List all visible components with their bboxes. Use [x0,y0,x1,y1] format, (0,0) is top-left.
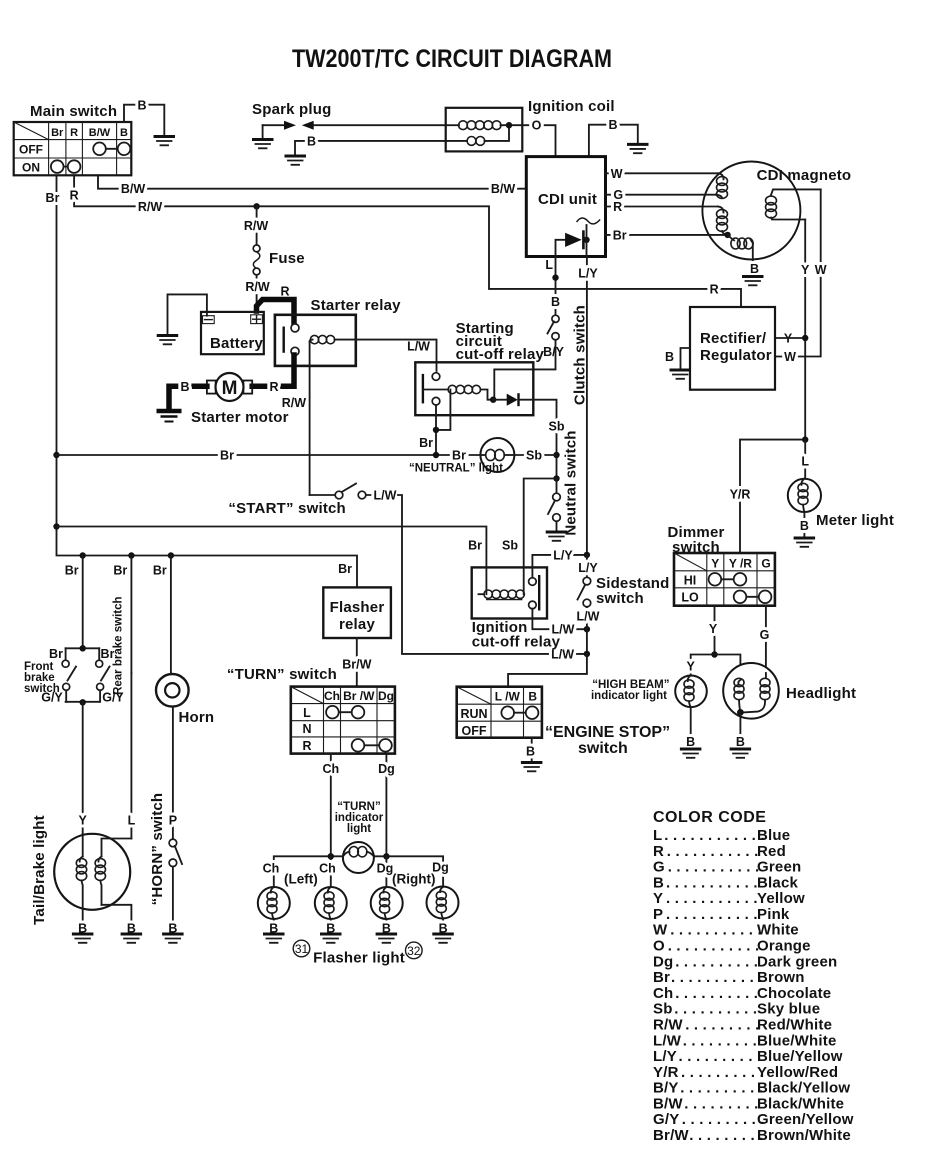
svg-text:Main switch: Main switch [30,103,117,120]
flasher light label [313,950,405,967]
svg-text:. . . . . . . . . . .: . . . . . . . . . . . [668,938,760,955]
svg-text:P: P [169,814,177,828]
svg-text:G: G [653,859,665,876]
svg-text:Br: Br [653,969,670,986]
wire L from CDI [545,257,560,315]
svg-text:B/W: B/W [491,182,516,196]
svg-text:. . . . . . . . . .: . . . . . . . . . . [681,1064,764,1081]
svg-text:B: B [750,262,759,276]
ground tail light 1 [72,934,94,943]
color code O [653,938,811,955]
svg-text:L/Y: L/Y [553,548,573,562]
wire R/W bus [70,175,741,307]
CDI unit [526,157,605,257]
svg-text:Y: Y [79,814,88,828]
svg-text:Starter motor: Starter motor [191,409,289,426]
color code B/W [653,1095,844,1112]
engine stop switch table [457,687,542,738]
node L/W sidestand bottom [584,651,590,657]
spark plug label [252,101,332,118]
ignition coil [446,108,523,152]
flasher light 2 [315,887,347,936]
svg-text:Br /W: Br /W [343,689,375,703]
neutral light [480,438,556,472]
color code R [653,843,786,860]
wire spark plug HT lead [314,124,446,126]
wire R/W starter relay coil to start switch [282,342,310,496]
rectifier/regulator [690,307,775,390]
meter light label [816,512,894,529]
wire L/W cutoff relay lower contact [532,609,590,637]
svg-text:32: 32 [407,944,421,958]
svg-text:Horn: Horn [179,709,215,726]
svg-text:Br: Br [65,564,79,578]
magneto charge coil to B ground [728,235,759,276]
wire B starter motor to ground (thick) [169,380,207,409]
svg-text:G: G [760,628,770,642]
svg-text:Dg: Dg [377,862,394,876]
node Br tail drop [80,552,86,558]
node Br bus1 [53,452,59,458]
svg-text:R: R [710,282,719,296]
svg-text:Dg: Dg [378,689,394,703]
headlight [723,663,779,719]
svg-text:Fuse: Fuse [269,250,305,267]
svg-text:B: B [653,874,664,891]
svg-text:L: L [545,258,553,272]
svg-text:Y: Y [801,263,810,277]
svg-text:Starter relay: Starter relay [311,297,402,314]
ground rectifier [670,370,692,379]
svg-text:Br: Br [338,562,352,576]
wire Br main vertical [46,175,357,587]
svg-text:Y: Y [711,556,719,570]
wire L/Y cutoff relay upper contact [532,548,590,577]
svg-text:. . . . . . . . . .: . . . . . . . . . . [674,1001,757,1018]
starter relay label [311,297,402,314]
color code Y/R [653,1064,838,1081]
ground starter motor (thick) [157,411,182,422]
color code Dg [653,953,837,970]
svg-text:Br: Br [49,647,63,661]
svg-text:Meter light: Meter light [816,512,894,529]
svg-text:R: R [70,127,78,139]
starting circuit cut-off relay [415,362,533,430]
svg-text:Clutch switch: Clutch switch [572,305,589,405]
svg-text:B: B [526,745,535,759]
svg-text:L/W: L/W [552,623,575,637]
svg-text:. . . . . . . . .: . . . . . . . . . [685,1017,759,1034]
svg-text:Black: Black [757,874,798,891]
node Sb neutral light [553,452,559,458]
ignition cut-off relay [472,567,547,618]
node Y rectifier [775,335,808,341]
svg-text:R: R [269,380,278,394]
wire Br to tail light [113,556,131,674]
svg-text:B: B [137,99,146,113]
ground flasher 1 [263,934,285,943]
svg-text:R: R [302,739,311,753]
starter motor [191,373,289,426]
svg-text:Brown: Brown [757,969,805,986]
svg-text:Ch: Ch [653,985,673,1002]
color code G/Y [653,1111,854,1128]
turn switch label [227,666,337,683]
svg-text:Ch: Ch [319,862,336,876]
svg-text:relay: relay [339,616,375,633]
svg-text:R: R [653,843,664,860]
svg-text:B: B [686,735,695,749]
horn label [179,709,215,726]
svg-text:light: light [347,823,371,835]
svg-text:31: 31 [295,942,309,956]
svg-text:B: B [551,295,560,309]
svg-text:Yellow: Yellow [757,890,805,907]
wire O ignition coil to CDI [522,119,555,157]
svg-text:Green/Yellow: Green/Yellow [757,1111,854,1128]
svg-text:L/Y: L/Y [578,561,598,575]
svg-text:Blue/Yellow: Blue/Yellow [757,1048,843,1065]
CDI magneto label [757,167,852,184]
svg-text:Tail/Brake light: Tail/Brake light [31,815,48,925]
wire W CDI to magneto + source coil [606,167,728,199]
svg-text:N: N [302,722,311,736]
svg-text:. . . . . . . . . .: . . . . . . . . . . [680,1080,763,1097]
start switch [310,484,398,503]
ground battery minus [157,336,179,345]
color code legend title [653,809,766,826]
svg-text:B: B [736,735,745,749]
svg-text:Headlight: Headlight [786,685,856,702]
wire L to meter light [801,440,809,479]
svg-text:Red: Red [757,843,786,860]
title [292,45,612,73]
svg-text:. . . . . . . . .: . . . . . . . . . [683,1032,757,1049]
svg-text:switch: switch [578,740,628,757]
svg-text:Spark plug: Spark plug [252,101,332,118]
dimmer switch label [667,524,724,556]
svg-text:G/Y: G/Y [102,691,124,705]
svg-text:CDI magneto: CDI magneto [757,167,852,184]
engine stop switch label [545,724,670,757]
node R/W fuse tap [253,203,259,209]
svg-text:. . . . . . . . . . .: . . . . . . . . . . . [666,874,758,891]
magneto lighting coil [766,189,821,219]
svg-text:Sky blue: Sky blue [757,1001,820,1018]
svg-text:W: W [653,922,668,939]
brake switches bridge [41,645,124,705]
wire G dimmer to headlight [760,606,770,673]
svg-text:. . . . . . . . . . .: . . . . . . . . . . . [668,859,760,876]
wire R battery to starter relay (thick) [257,285,295,326]
svg-text:L: L [128,814,136,828]
wire Br to horn [153,556,171,675]
svg-text:Flasher: Flasher [330,599,385,616]
color code Br/W [653,1127,851,1144]
main switch label [30,103,117,120]
svg-text:. . . . . . . . . . .: . . . . . . . . . . . [666,906,758,923]
svg-text:L/W: L/W [653,1032,682,1049]
wire Dg turn switch down [378,754,395,857]
svg-text:Br: Br [468,539,482,553]
svg-text:Br: Br [51,127,64,139]
svg-text:R/W: R/W [282,396,307,410]
wire Br/W flasher relay to turn switch [342,638,371,687]
svg-text:Br: Br [101,647,115,661]
number 32 [406,942,423,959]
svg-text:L /W: L /W [495,690,521,704]
svg-text:Y/R: Y/R [730,488,751,502]
svg-text:Br: Br [220,449,234,463]
neutral switch label [563,430,580,535]
svg-text:indicator light: indicator light [591,690,667,702]
color code Ch [653,985,831,1002]
svg-text:Br: Br [419,436,433,450]
svg-text:R: R [613,200,622,214]
color code W [653,922,799,939]
wire Y magneto down [784,220,810,440]
svg-text:W: W [815,263,827,277]
wire B meter light ground [800,512,809,538]
wire L/W starter relay to cutoff relay [356,340,437,372]
svg-text:Br: Br [613,228,627,242]
svg-text:B: B [528,690,537,704]
svg-text:Sb: Sb [502,539,518,553]
high beam indicator light [675,676,707,708]
battery [201,312,264,354]
node Br horn drop [168,552,174,558]
wire L/W start switch to sidestand node [398,495,587,661]
svg-text:“NEUTRAL” light: “NEUTRAL” light [409,463,503,475]
svg-text:Orange: Orange [757,938,811,955]
svg-text:L/Y: L/Y [653,1048,677,1065]
svg-text:Y /R: Y /R [729,556,752,570]
svg-text:Br/W: Br/W [342,658,371,672]
svg-text:R: R [281,285,290,299]
svg-text:. . . . . . . . . .: . . . . . . . . . . [675,985,758,1002]
wire B engine stop to ground [526,738,535,762]
svg-text:TW200T/TC CIRCUIT DIAGRAM: TW200T/TC CIRCUIT DIAGRAM [292,45,612,73]
svg-text:“START” switch: “START” switch [228,500,346,517]
main switch table [14,122,132,175]
svg-text:. . . . . . . . . . .: . . . . . . . . . . . [666,890,758,907]
svg-text:G/Y: G/Y [41,691,63,705]
svg-text:Ignition coil: Ignition coil [528,98,615,115]
svg-text:R/W: R/W [244,219,269,233]
svg-text:Br: Br [113,564,127,578]
svg-text:CDI unit: CDI unit [538,191,597,208]
color code Sb [653,1001,820,1018]
meter light [788,479,821,512]
dimmer switch table [674,553,775,606]
svg-text:Chocolate: Chocolate [757,985,831,1002]
ground spark plug [252,140,274,149]
wire L tail light [128,673,136,839]
neutral light label [409,463,503,475]
tail/brake light [54,834,136,936]
svg-text:. . . . . . . . .: . . . . . . . . . [684,1095,758,1112]
wire B high beam ground [686,707,695,749]
svg-text:Battery: Battery [210,335,264,352]
svg-text:Y: Y [687,660,696,674]
svg-text:G/Y: G/Y [653,1111,679,1128]
svg-text:OFF: OFF [19,143,43,157]
clutch switch label [572,305,589,405]
neutral switch [548,475,560,531]
svg-text:“HORN” switch: “HORN” switch [149,793,166,906]
svg-text:switch: switch [596,590,644,607]
color code P [653,906,790,923]
svg-text:Y: Y [709,622,718,636]
svg-text:(Left): (Left) [284,872,318,887]
headlight label [786,685,856,702]
svg-text:Ch: Ch [324,689,340,703]
wire to engine stop switch [508,654,587,687]
svg-text:Rear brake switch: Rear brake switch [113,596,125,694]
ground CDI B [627,144,649,153]
svg-text:Y/R: Y/R [653,1064,679,1081]
svg-text:Br: Br [452,449,466,463]
wire R/W fuse to battery [245,275,270,312]
svg-text:B/W: B/W [121,182,146,196]
svg-text:RUN: RUN [460,707,487,721]
rear brake switch label [113,596,125,694]
color code Br [653,969,805,986]
svg-text:ON: ON [22,161,40,175]
node Br bus2 [53,523,59,529]
svg-text:Neutral switch: Neutral switch [563,430,580,535]
svg-text:Rectifier/: Rectifier/ [700,330,767,347]
svg-text:Sb: Sb [653,1001,673,1018]
starting circuit cut-off relay label [456,320,545,363]
svg-text:O: O [532,119,542,133]
svg-text:HI: HI [684,573,697,587]
flasher light 3 [371,887,403,936]
svg-text:Ch: Ch [322,762,339,776]
svg-text:“TURN” switch: “TURN” switch [227,666,337,683]
svg-text:Yellow/Red: Yellow/Red [757,1064,838,1081]
turn indicator light [343,842,374,873]
svg-text:W: W [611,167,623,181]
svg-text:W: W [784,350,796,364]
svg-text:. . . . . . . . . .: . . . . . . . . . . [679,1048,762,1065]
svg-text:B/W: B/W [89,127,111,139]
svg-text:L: L [653,827,662,844]
svg-text:O: O [653,938,665,955]
wire B from main switch to ground [124,99,164,137]
color code Y [653,890,805,907]
wire P horn to switch [169,707,177,839]
node Br taillight drop [128,552,134,558]
svg-text:cut-off relay: cut-off relay [456,346,545,363]
sidestand switch [577,555,600,654]
sidestand switch label [596,575,669,607]
start switch label [228,500,346,517]
color code R/W [653,1017,832,1034]
svg-text:L/Y: L/Y [578,267,598,281]
svg-text:Dg: Dg [653,953,673,970]
svg-text:Ch: Ch [263,862,280,876]
svg-text:Dark green: Dark green [757,953,837,970]
wire battery minus to ground [168,294,207,335]
fuse [253,245,305,275]
svg-text:L/W: L/W [407,340,430,354]
svg-text:R/W: R/W [138,200,163,214]
wire flasher bus [263,853,449,887]
wire B headlight ground [736,712,745,749]
svg-text:R/W: R/W [245,280,270,294]
ground tail light 2 [121,934,143,943]
color code B/Y [653,1080,850,1097]
svg-text:. . . . . . . . . . .: . . . . . . . . . . . [670,922,762,939]
ground main switch B [154,137,176,146]
svg-text:B/Y: B/Y [653,1080,679,1097]
svg-text:Black/Yellow: Black/Yellow [757,1080,850,1097]
wire R CDI to magneto + pickup coil [606,200,728,235]
svg-text:. . . . . . . . . . .: . . . . . . . . . . . [671,969,763,986]
svg-text:Br: Br [153,564,167,578]
svg-text:Regulator: Regulator [700,347,772,364]
svg-text:R: R [70,189,79,203]
svg-text:Br/W: Br/W [653,1127,689,1144]
svg-text:Sb: Sb [526,449,542,463]
wire B CDI to ground [589,118,638,156]
svg-text:G: G [761,556,770,570]
wire W magneto to rectifier [775,189,827,364]
color code L [653,827,790,844]
wire R starter relay to motor (thick) [252,355,294,394]
svg-text:M: M [222,378,238,399]
wire B rectifier ground [665,348,690,369]
flasher relay [323,587,391,638]
svg-text:P: P [653,906,663,923]
svg-text:B: B [180,380,189,394]
left label [284,872,318,887]
CDI magneto circle [702,162,800,260]
svg-text:. . . . . . . . . . . .: . . . . . . . . . . . . [664,827,764,844]
front brake switch label [24,661,60,695]
wire R/W fuse line [244,206,269,245]
svg-text:Blue: Blue [757,827,790,844]
svg-text:B/Y: B/Y [543,345,565,359]
color code G [653,859,801,876]
ground magneto [742,277,764,286]
ground horn switch [162,934,184,943]
ground headlight [730,749,752,758]
tail/brake light label [31,815,48,925]
wire Sb to ignition cut-off relay [502,479,556,568]
svg-text:Pink: Pink [757,906,790,923]
svg-text:“ENGINE STOP”: “ENGINE STOP” [545,724,670,741]
wire Sb cut-off relay to neutral switch [533,400,565,479]
ground flasher 3 [376,934,398,943]
wire L/Y from CDI down [578,257,598,555]
svg-text:OFF: OFF [462,724,487,738]
svg-text:L: L [801,455,809,469]
wire B/W bus [98,175,526,196]
svg-text:COLOR CODE: COLOR CODE [653,809,766,826]
wire Y/R rectifier node to dimmer [730,436,809,553]
svg-text:Y: Y [653,890,663,907]
wire Br CDI to magneto [606,228,731,242]
turn switch table [291,687,395,754]
svg-text:Br: Br [46,191,60,205]
wire G CDI to magneto [606,188,717,202]
ignition coil label [528,98,615,115]
svg-text:Black/White: Black/White [757,1095,844,1112]
svg-text:B: B [665,350,674,364]
wire Ch turn switch down [322,754,339,857]
